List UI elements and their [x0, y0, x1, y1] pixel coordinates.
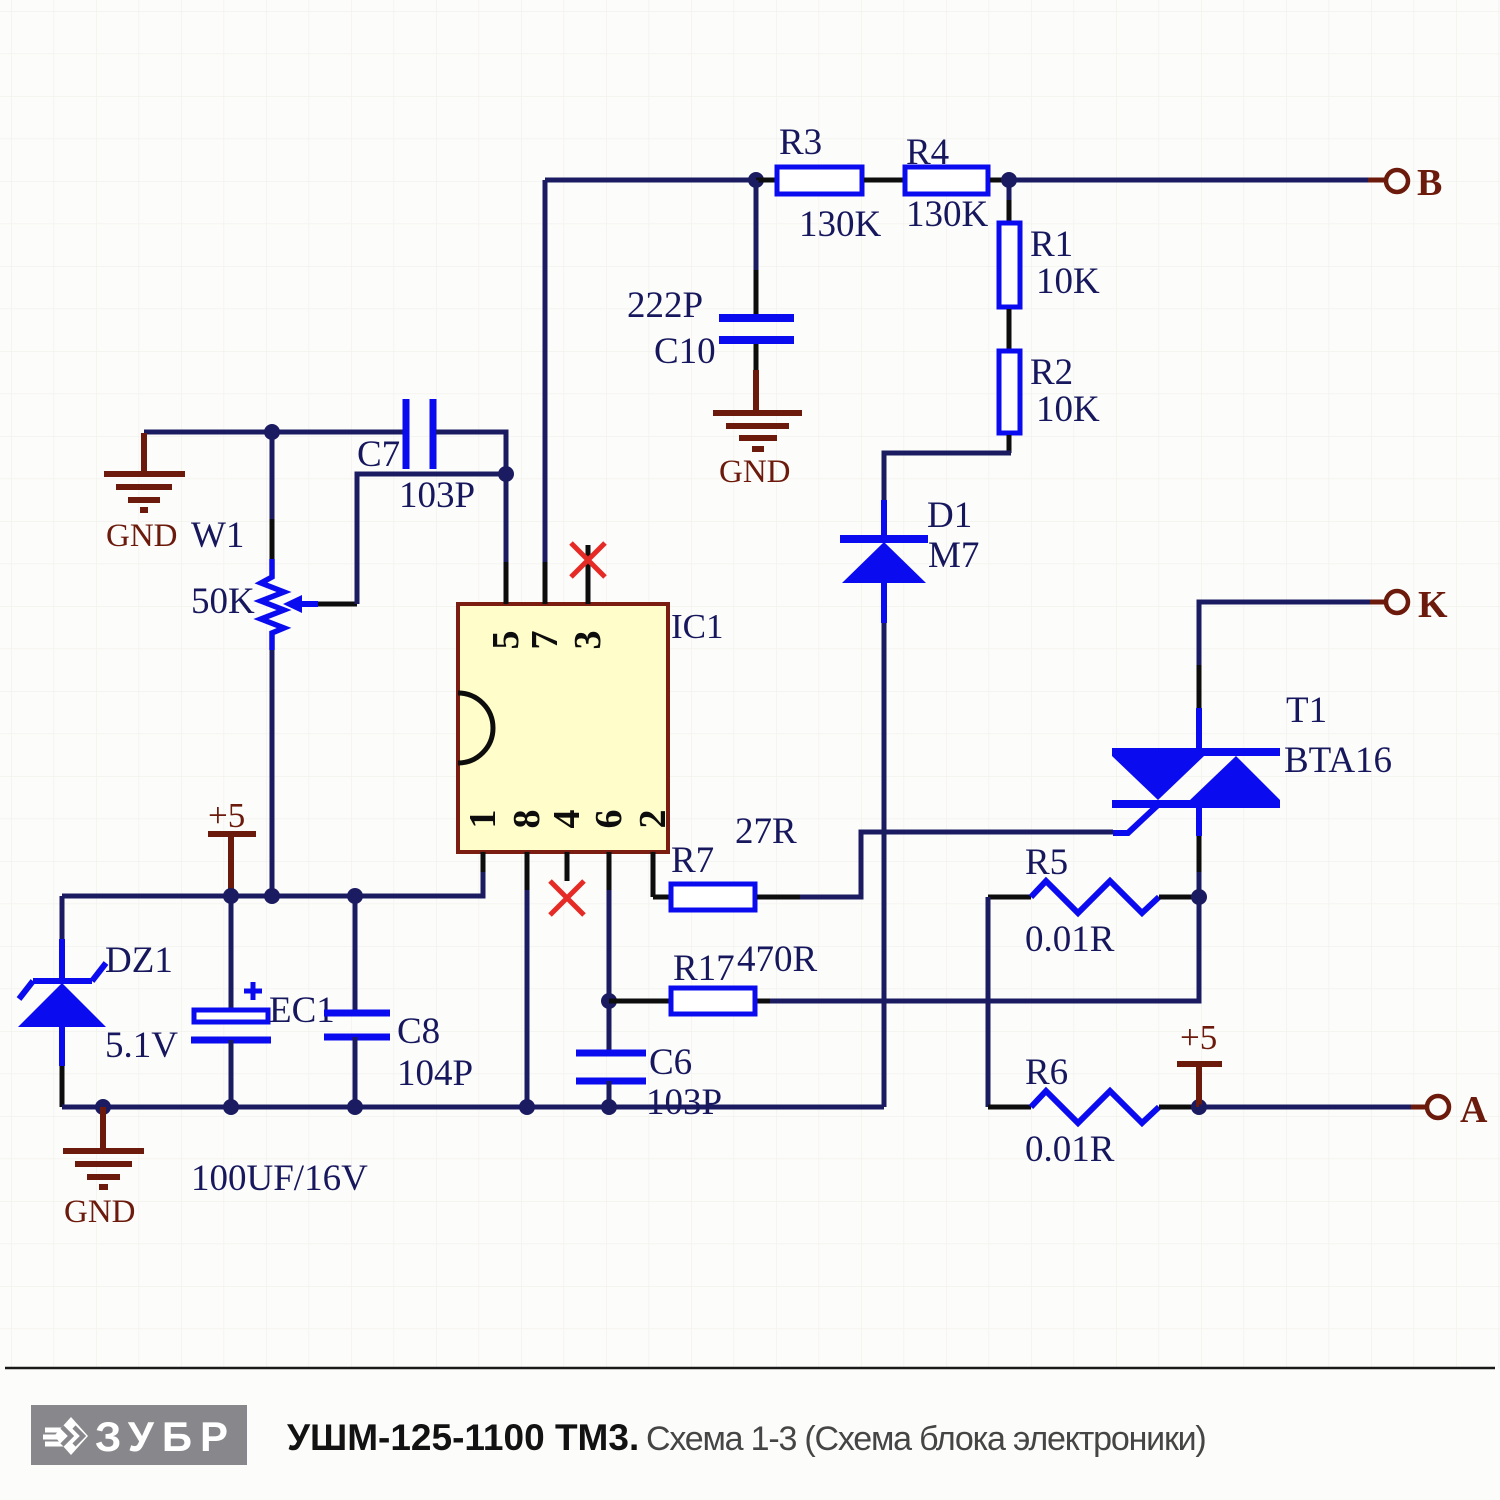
svg-text:R17: R17 [673, 948, 735, 989]
svg-text:100UF/16V: 100UF/16V [191, 1158, 368, 1199]
wire R2 bottom to D1 column [884, 435, 1011, 500]
svg-text:M7: M7 [928, 535, 979, 576]
no-connect X pin 3 [571, 543, 605, 577]
ground GND W1 [104, 433, 185, 554]
diode D1 [840, 495, 979, 623]
resistor R2 [999, 351, 1100, 433]
svg-text:УШМ-125-1100 ТМ3.: УШМ-125-1100 ТМ3. [287, 1417, 639, 1458]
svg-text:W1: W1 [191, 515, 244, 556]
svg-text:103P: 103P [646, 1082, 722, 1123]
svg-text:8: 8 [506, 810, 548, 829]
svg-text:27R: 27R [735, 811, 797, 852]
svg-text:C7: C7 [357, 434, 400, 475]
ground GND C10 [713, 370, 802, 490]
power +5 EC1 [208, 796, 256, 896]
svg-text:R5: R5 [1025, 842, 1068, 883]
svg-text:K: K [1418, 584, 1448, 626]
capacitor C6 [576, 1042, 722, 1123]
pin 1 [462, 810, 504, 873]
svg-text:ЗУБР: ЗУБР [95, 1413, 236, 1460]
wire pin8 column [525, 890, 530, 1107]
wire R1 top stub [1007, 180, 1012, 221]
ground GND main [63, 1107, 144, 1230]
capacitor EC1 [191, 896, 368, 1199]
logo ZUBR [31, 1405, 247, 1465]
node junction C6 bottom [601, 1099, 617, 1115]
pin 5 [485, 562, 527, 650]
wire to terminal B [1009, 178, 1386, 183]
svg-text:+5: +5 [1180, 1018, 1217, 1057]
potentiometer W1 [191, 432, 318, 650]
svg-text:103P: 103P [399, 475, 475, 516]
IC IC1 [458, 604, 724, 852]
node junction R3 left [748, 172, 764, 188]
svg-text:R2: R2 [1030, 352, 1073, 393]
resistor R5 [1025, 842, 1159, 960]
wire D1 column down [882, 623, 887, 1107]
resistor R3 [777, 122, 882, 245]
wire R6 right [1159, 1105, 1199, 1110]
svg-text:222P: 222P [627, 285, 703, 326]
capacitor C10 [627, 285, 794, 372]
node junction EC1 top [223, 888, 239, 904]
svg-text:5: 5 [485, 631, 527, 650]
wire R5 right [1159, 895, 1199, 900]
node junction pin5 net [498, 466, 514, 482]
node junction GND rail [95, 1099, 111, 1115]
capacitor C8 [324, 896, 473, 1107]
terminal A [1427, 1089, 1488, 1131]
svg-text:104P: 104P [397, 1053, 473, 1094]
wire pin1 to rail [481, 852, 486, 872]
wire wiper to pin5 net [318, 474, 506, 604]
svg-text:0.01R: 0.01R [1025, 919, 1115, 960]
node junction C8 bottom [347, 1099, 363, 1115]
power +5 A [1177, 1018, 1222, 1107]
wire C7 right to pin5 [436, 432, 506, 562]
pin 3 [567, 545, 609, 650]
svg-text:R7: R7 [671, 840, 714, 881]
resistor R7 [671, 811, 797, 910]
svg-text:10K: 10K [1036, 389, 1100, 430]
svg-text:IC1: IC1 [671, 607, 724, 646]
triac T1 [1112, 690, 1392, 836]
wire stub R3-R4 [864, 178, 903, 183]
svg-text:GND: GND [719, 454, 791, 490]
wire to terminal A [1199, 1105, 1427, 1110]
label W1 [191, 515, 244, 556]
resistor R6 [1025, 1052, 1159, 1170]
svg-text:C10: C10 [654, 331, 716, 372]
node junction W1 bottom [264, 888, 280, 904]
svg-text:R4: R4 [906, 132, 949, 173]
svg-text:3: 3 [567, 631, 609, 650]
pin 2 [632, 810, 674, 898]
zener DZ1 [18, 896, 178, 1107]
pin 4 [546, 810, 588, 882]
svg-text:DZ1: DZ1 [105, 940, 173, 981]
wire R5 left [988, 895, 1031, 900]
wire T1 bottom [1197, 836, 1202, 897]
node junction pin6 R17 [601, 993, 617, 1009]
footer separator [5, 1367, 1495, 1370]
wire bottom rail [62, 1105, 884, 1110]
svg-text:R3: R3 [779, 122, 822, 163]
svg-text:4: 4 [546, 810, 588, 829]
node junction R6-A [1191, 1099, 1207, 1115]
pin 6 [588, 810, 630, 891]
wire R5R6 left vertical [986, 897, 991, 1107]
resistor R17 [671, 939, 818, 1014]
wire R6 left [988, 1105, 1031, 1110]
wire top net to pin7 [545, 180, 760, 562]
svg-text:6: 6 [588, 810, 630, 829]
svg-text:R1: R1 [1030, 224, 1073, 265]
svg-text:10K: 10K [1036, 261, 1100, 302]
wire stub R4 right [990, 178, 1009, 183]
no-connect X pin 4 [550, 881, 584, 915]
svg-text:C6: C6 [649, 1042, 692, 1083]
svg-text:2: 2 [632, 810, 674, 829]
wire C10 column [754, 180, 759, 314]
title text [287, 1417, 1206, 1458]
svg-text:130K: 130K [799, 204, 882, 245]
svg-text:5.1V: 5.1V [105, 1025, 178, 1066]
wire +5 rail [62, 872, 483, 896]
svg-text:0.01R: 0.01R [1025, 1129, 1115, 1170]
pin 8 [506, 810, 548, 891]
svg-text:50K: 50K [191, 581, 255, 622]
node junction C8 top [347, 888, 363, 904]
wire stub R3 left [756, 178, 775, 183]
wire R7 to gate [757, 832, 1113, 897]
svg-text:1: 1 [462, 810, 504, 829]
svg-text:BTA16: BTA16 [1284, 740, 1392, 781]
svg-text:130K: 130K [906, 194, 989, 235]
wire R1-R2 stub [1007, 309, 1012, 349]
terminal K [1386, 584, 1448, 626]
wire R17 left stub [609, 999, 669, 1004]
svg-text:470R: 470R [737, 939, 818, 980]
svg-text:R6: R6 [1025, 1052, 1068, 1093]
svg-text:7: 7 [524, 631, 566, 650]
node junction pin8 rail [519, 1099, 535, 1115]
node junction W1 top [264, 424, 280, 440]
svg-text:+5: +5 [208, 796, 245, 835]
wire pin6 column [607, 890, 612, 1052]
wire R17 output net [757, 897, 1199, 1001]
pin 7 [524, 562, 566, 650]
svg-text:GND: GND [106, 518, 178, 554]
svg-text:D1: D1 [927, 495, 972, 536]
terminal B [1386, 162, 1442, 204]
svg-text:A: A [1460, 1089, 1488, 1131]
wire pin2 to R7 [653, 895, 669, 900]
wire C10 bottom stub [754, 344, 759, 370]
resistor R1 [999, 223, 1100, 307]
svg-text:GND: GND [64, 1194, 136, 1230]
svg-text:Схема 1-3 (Схема блока электро: Схема 1-3 (Схема блока электроники) [646, 1420, 1206, 1458]
svg-text:T1: T1 [1286, 690, 1327, 731]
node junction T1-R5 [1191, 889, 1207, 905]
svg-text:B: B [1417, 162, 1442, 204]
wire left top net [144, 430, 405, 435]
svg-text:C8: C8 [397, 1011, 440, 1052]
capacitor C7 [357, 399, 475, 516]
resistor R4 [905, 132, 989, 235]
node junction R4 right [1001, 172, 1017, 188]
wire T1 top to K [1199, 602, 1386, 708]
node junction EC1 bottom [223, 1099, 239, 1115]
wire W1 bottom [270, 650, 275, 896]
